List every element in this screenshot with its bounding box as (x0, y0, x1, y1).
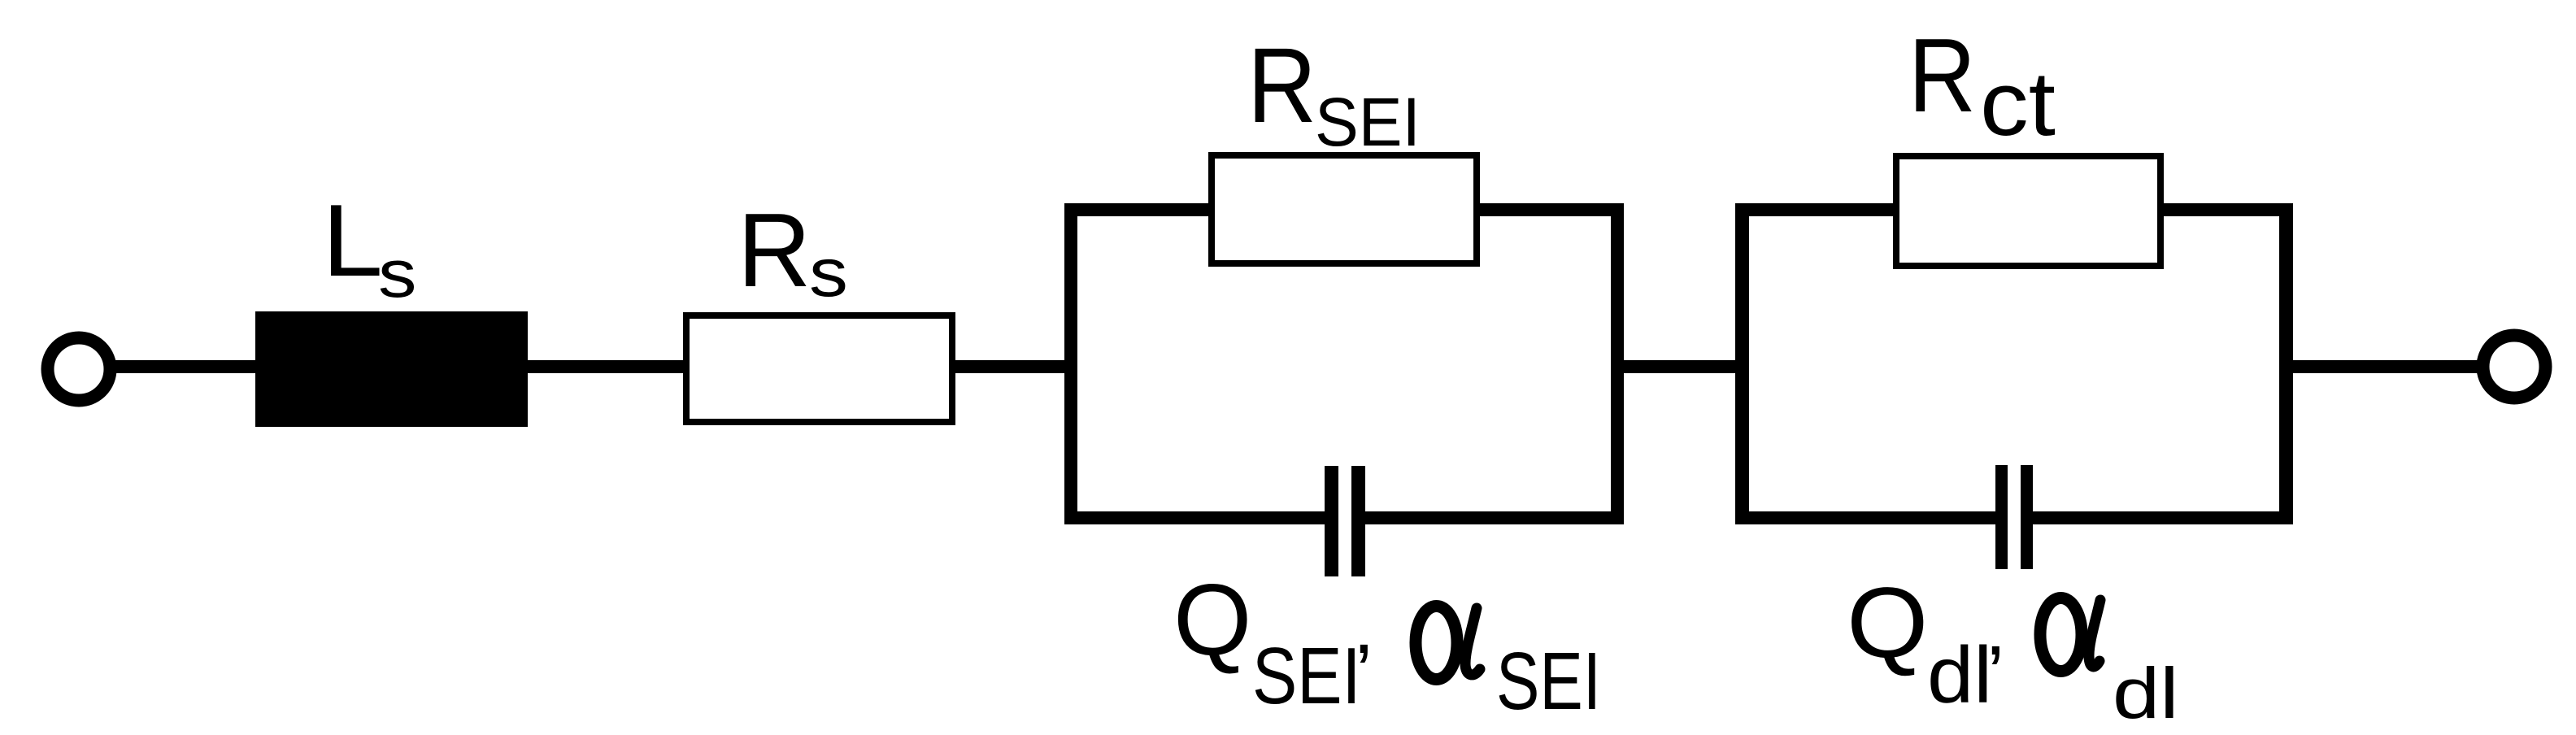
svg-text:SEI: SEI (1252, 633, 1360, 721)
capacitor QSEI right plate (1351, 466, 1365, 576)
wire L1 to Rs (524, 360, 686, 373)
block1 right vertical wire (1611, 203, 1624, 524)
wire block2 to terminal T2 (2290, 360, 2480, 373)
wire T1 to L1 (114, 360, 259, 373)
label alphaSEI: alpha (1416, 607, 1480, 680)
block1 top wire (1064, 203, 1624, 216)
svg-text:SEI: SEI (1315, 85, 1421, 161)
svg-text:s: s (809, 234, 848, 311)
svg-text:Q: Q (1847, 567, 1928, 679)
svg-text:,: , (1353, 584, 1374, 670)
block2 bottom wire (left of capacitor) (1735, 511, 1996, 524)
svg-text:R: R (1247, 26, 1316, 145)
svg-text:dl: dl (2113, 654, 2179, 733)
block2 left vertical wire (1735, 203, 1749, 524)
label alphadl: alpha (2040, 598, 2100, 672)
svg-text:L: L (322, 183, 383, 298)
resistor Rct (box) (1896, 156, 2160, 266)
block1 bottom wire (left of capacitor) (1064, 511, 1325, 524)
capacitor Qdl right plate (2021, 465, 2033, 569)
terminal T1 (left input) (48, 338, 111, 401)
wire Rs to parallel block 1 (952, 360, 1074, 373)
block1 left vertical wire (1064, 203, 1077, 524)
svg-text:s: s (378, 235, 416, 311)
svg-text:ct: ct (1980, 52, 2056, 154)
svg-text:R: R (738, 191, 811, 308)
svg-text:,: , (1985, 585, 2006, 672)
resistor RSEI (box) (1212, 155, 1477, 263)
block2 top wire (1735, 203, 2293, 216)
resistor Rs (box) (686, 315, 952, 422)
svg-text:R: R (1908, 16, 1976, 134)
block2 bottom wire (right of capacitor) (2033, 511, 2293, 524)
capacitor QSEI left plate (1325, 466, 1338, 576)
block2 right vertical wire (2279, 203, 2293, 524)
svg-text:dl: dl (1927, 631, 1992, 720)
svg-text:SEI: SEI (1496, 637, 1601, 728)
svg-text:Q: Q (1173, 564, 1251, 676)
block1 bottom wire (right of capacitor) (1364, 511, 1624, 524)
capacitor Qdl left plate (1995, 465, 2008, 569)
wire block1 to block2 (1614, 360, 1746, 373)
inductor Ls (solid body) (255, 311, 528, 427)
terminal T2 (right output) (2483, 336, 2546, 398)
